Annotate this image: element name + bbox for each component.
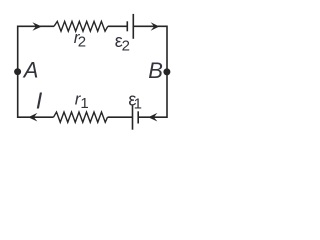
battery E1 short plate (137, 111, 139, 123)
arrow top-left (points right) (32, 22, 41, 31)
resistor r2 zigzag (54, 21, 108, 31)
node B dot (163, 68, 170, 75)
battery E1 tall plate (132, 105, 134, 130)
arrow bottom-left (points left) (28, 113, 37, 122)
svg-text:I: I (36, 88, 43, 114)
wire: top middle segment to battery (108, 25, 128, 27)
svg-text:2: 2 (122, 37, 130, 54)
battery E2 short plate (126, 21, 128, 31)
wire: bottom-left + left vertical + top-left segments (18, 26, 54, 117)
node A dot (14, 68, 21, 75)
arrow bottom-right (points left) (148, 113, 157, 122)
resistor r1 zigzag (54, 112, 108, 122)
wire: top-right + right vertical + bottom-right segments (133, 26, 167, 117)
svg-text:2: 2 (78, 34, 86, 51)
wire: bottom middle segment (108, 116, 133, 118)
battery E2 tall plate (132, 14, 134, 39)
svg-text:B: B (148, 58, 163, 83)
arrow top-right (points right) (151, 22, 160, 31)
svg-text:1: 1 (134, 95, 142, 112)
svg-text:1: 1 (80, 95, 88, 112)
svg-text:A: A (22, 57, 39, 82)
